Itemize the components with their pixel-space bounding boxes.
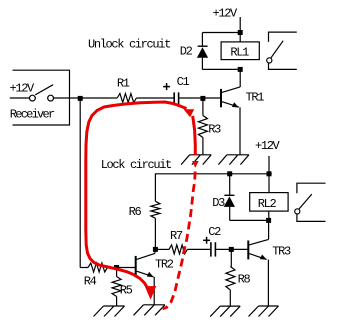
svg-text:R8: R8 — [238, 273, 251, 287]
svg-text:D2: D2 — [180, 44, 193, 58]
wire R4 to TR2 base — [108, 267, 136, 269]
svg-text:R5: R5 — [120, 284, 133, 298]
wire R1 to C1 — [136, 97, 173, 99]
wire TR1 emitter down — [239, 107, 241, 155]
resistor R5 — [112, 277, 121, 297]
transistor TR2 emitter — [137, 271, 154, 277]
transistor TR3 collector — [249, 239, 268, 245]
svg-text:D3: D3 — [212, 196, 225, 210]
capacitor C2 — [210, 242, 212, 256]
svg-text:C2: C2 — [208, 225, 221, 239]
diode D2 (triangle) — [197, 47, 208, 58]
svg-text:C1: C1 — [177, 75, 190, 89]
node dot R4/R5/TR2 base — [114, 265, 119, 270]
wire left corner to R4 — [80, 267, 88, 269]
transistor TR2 collector — [137, 253, 155, 259]
transistor TR1 emitter — [222, 102, 239, 107]
relay contact 1 arm — [271, 41, 284, 59]
receiver switch contact circle right — [48, 95, 54, 101]
resistor R4 — [88, 263, 108, 272]
ground (R3) — [181, 155, 211, 165]
ground (TR3 emitter) — [249, 306, 279, 317]
wire D2 top branch — [202, 32, 240, 34]
ground (TR1 emitter) — [218, 155, 249, 165]
node dot RL1 bottom — [238, 67, 243, 72]
red arrowhead big (down at TR2 emitter) — [145, 286, 157, 300]
transistor TR1 base bar — [220, 89, 222, 107]
transistor TR2 base bar — [135, 256, 137, 277]
label + (C1 polarity) — [163, 86, 170, 88]
svg-text:RL1: RL1 — [230, 45, 249, 59]
svg-text:R4: R4 — [84, 275, 97, 289]
svg-text:TR1: TR1 — [246, 90, 265, 104]
wire +12V rail to RL2 — [268, 174, 270, 193]
wire C1 to TR1 base — [179, 97, 221, 99]
svg-text:TR2: TR2 — [155, 257, 174, 271]
wire RL2 bottom to TR3 collector — [268, 220, 270, 239]
wire R7 to C2 — [187, 248, 210, 250]
relay contact 1 bottom terminal — [269, 63, 297, 69]
capacitor C1 — [173, 92, 175, 105]
relay contact 2 top terminal — [297, 183, 326, 193]
wire D3 top branch — [229, 174, 231, 195]
svg-text:Unlock circuit: Unlock circuit — [88, 37, 170, 51]
wire RL2 bottom — [268, 211, 270, 220]
svg-text:R6: R6 — [129, 205, 142, 219]
relay coil RL2 box — [250, 193, 288, 212]
wire node to R7 — [155, 248, 169, 250]
wire TR1 base node down to R3 — [202, 98, 204, 115]
wire TR2 emitter down — [153, 277, 155, 305]
svg-text:Lock circuit: Lock circuit — [101, 158, 171, 172]
resistor R3 — [198, 116, 207, 138]
relay contact 1 pivot circle — [267, 58, 272, 63]
transistor TR3 emitter arrow — [260, 255, 267, 260]
receiver box (open left side) — [13, 70, 70, 125]
resistor R7 — [169, 245, 187, 254]
relay contact 1 top terminal — [269, 32, 297, 42]
wire R3 to ground — [202, 138, 204, 155]
wire R5 to ground — [116, 297, 118, 307]
ground (R5) — [94, 306, 125, 317]
red flow path: vertical to lock ground — [193, 116, 196, 156]
wire +12V down to RL1 — [239, 17, 241, 42]
node dot R6/R7/TR2 collector — [153, 247, 158, 252]
svg-text:+12V: +12V — [10, 82, 36, 96]
wire node down to R5 — [116, 268, 118, 277]
node dot C2/R8/TR3 base — [229, 247, 234, 252]
relay contact 2 arm — [299, 194, 312, 209]
transistor TR3 emitter — [249, 254, 266, 260]
ground (TR2 emitter) — [134, 305, 166, 316]
svg-text:TR3: TR3 — [272, 245, 291, 259]
wire R6 down to node — [154, 218, 156, 249]
receiver switch contact circle left — [30, 95, 36, 101]
relay coil RL1 box — [221, 42, 259, 60]
node dot RL2 bottom / TR3 collector — [266, 218, 271, 223]
resistor R6 — [151, 201, 160, 218]
wire D3 bottom branch — [229, 207, 231, 221]
transistor TR3 base bar — [247, 241, 249, 260]
resistor R1 — [117, 94, 136, 103]
red flow path: dashed (lock current return) — [163, 172, 196, 309]
transistor TR2 emitter arrow — [147, 272, 154, 277]
label + (C2 polarity) — [203, 239, 210, 241]
svg-text:R1: R1 — [117, 76, 130, 90]
node dot D3 top — [227, 171, 232, 176]
wire TR3 base node down to R8 — [230, 249, 232, 266]
node dot lock +12V rail — [267, 171, 272, 176]
diode D2 (cathode bar) — [198, 45, 208, 47]
wire C2 to TR3 base — [215, 248, 248, 250]
relay contact 2 bottom terminal — [297, 214, 326, 221]
svg-text:R7: R7 — [170, 229, 183, 243]
relay contact 2 pivot circle — [295, 209, 300, 214]
node dot +12V / D2 top — [238, 30, 243, 35]
svg-text:Receiver: Receiver — [10, 108, 55, 122]
svg-text:+12V: +12V — [255, 139, 281, 153]
svg-text:+12V: +12V — [213, 7, 239, 21]
svg-text:RL2: RL2 — [258, 197, 277, 211]
receiver switch arm — [35, 85, 53, 95]
wire left vertical (receiver node down) — [79, 98, 81, 267]
ground (R8) — [210, 306, 240, 317]
node junction dot left (receiver output) — [78, 96, 83, 101]
wire RL1 bottom to TR1 collector — [239, 69, 241, 87]
wire receiver switch to R1 — [54, 97, 118, 99]
wire D2 bottom branch — [201, 58, 203, 70]
wire +12V lock down — [268, 156, 270, 174]
diode D3 (triangle) — [224, 196, 235, 207]
transistor TR1 collector — [222, 87, 240, 93]
receiver switch left lead — [10, 97, 29, 99]
node junction dot TR1 base / R3 — [200, 96, 205, 101]
wire lock circuit top rail — [155, 174, 271, 202]
wire TR2 collector up to node — [154, 249, 156, 253]
svg-text:R3: R3 — [208, 123, 221, 137]
wire R8 to ground — [229, 290, 231, 306]
red arrowhead at lock ground (down) — [192, 161, 199, 168]
diode D3 (cathode bar) — [224, 194, 234, 196]
resistor R8 — [226, 267, 235, 291]
wire TR3 emitter down — [267, 260, 269, 306]
transistor TR1 emitter arrow — [232, 102, 239, 107]
red arrowhead mid (down into R3 branch) — [184, 109, 195, 117]
red flow path: solid arc (receiver to TR2) — [86, 102, 187, 288]
